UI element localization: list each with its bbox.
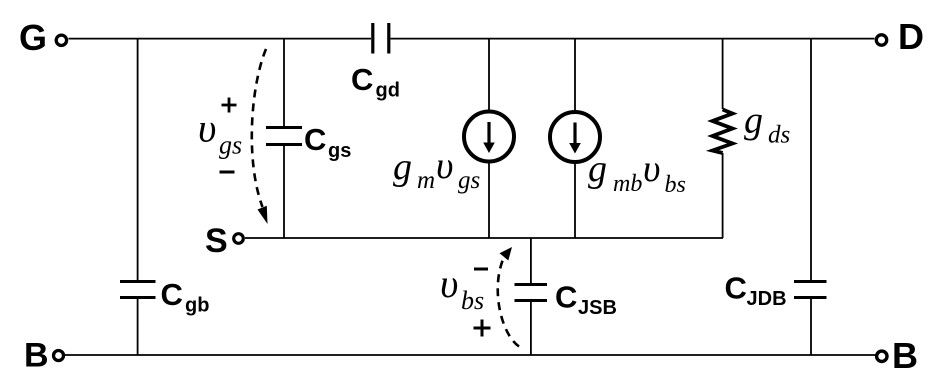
capacitor C_gd xyxy=(351,23,400,102)
capacitor C_gb xyxy=(120,277,209,317)
svg-text:gs: gs xyxy=(219,131,242,160)
label gmb vbs xyxy=(588,148,686,198)
svg-text:m: m xyxy=(417,167,435,194)
svg-text:C: C xyxy=(555,280,577,315)
svg-text:B: B xyxy=(892,335,918,376)
svg-text:C: C xyxy=(161,277,183,312)
svg-text:g: g xyxy=(393,146,412,188)
svg-text:υ: υ xyxy=(198,106,216,151)
svg-text:JSB: JSB xyxy=(578,297,617,319)
capacitor C_gs xyxy=(266,122,351,162)
svg-text:C: C xyxy=(351,62,373,97)
svg-text:υ: υ xyxy=(436,145,453,187)
terminal B right circle xyxy=(877,351,887,361)
svg-text:bs: bs xyxy=(461,286,484,315)
wire gmb source lower xyxy=(574,162,576,239)
vbs minus sign xyxy=(474,268,488,271)
vgs plus sign xyxy=(222,98,237,113)
terminal G circle xyxy=(56,35,66,45)
current source gmb*vbs xyxy=(550,112,600,162)
svg-text:gd: gd xyxy=(376,80,400,102)
wire Cgb branch lower xyxy=(137,298,139,356)
svg-text:G: G xyxy=(19,17,47,58)
wire gds branch upper xyxy=(722,39,724,109)
resistor g_ds xyxy=(713,110,733,154)
svg-text:D: D xyxy=(898,16,924,57)
svg-text:mb: mb xyxy=(613,171,642,197)
terminal B left label xyxy=(24,337,49,375)
vgs dashed arrow xyxy=(252,49,268,224)
wire CJSB branch lower xyxy=(530,301,532,356)
svg-text:B: B xyxy=(24,337,49,375)
wire S rail xyxy=(245,237,723,239)
terminal D circle xyxy=(876,35,886,45)
svg-text:C: C xyxy=(725,271,747,306)
capacitor C_JDB xyxy=(725,271,827,311)
svg-text:JDB: JDB xyxy=(747,288,787,310)
wire Cgb branch upper xyxy=(137,39,139,282)
svg-text:υ: υ xyxy=(643,148,660,190)
svg-text:S: S xyxy=(205,222,228,260)
label g_ds xyxy=(744,100,790,149)
wire top rail right segment (Cgd to D) xyxy=(391,38,875,40)
wire gm source lower xyxy=(488,161,490,238)
svg-text:gb: gb xyxy=(185,295,209,317)
wire bottom rail xyxy=(65,354,876,356)
svg-text:gs: gs xyxy=(328,140,351,162)
label gm vgs xyxy=(393,145,480,194)
wire gds branch lower xyxy=(722,153,724,238)
svg-text:g: g xyxy=(744,100,763,142)
terminal S circle xyxy=(234,234,244,244)
wire top rail left segment (G to Cgd) xyxy=(69,38,372,40)
svg-text:gs: gs xyxy=(458,167,480,194)
vbs plus sign xyxy=(474,320,491,337)
terminal D label xyxy=(898,16,924,57)
svg-text:C: C xyxy=(304,122,326,157)
terminal G label xyxy=(19,17,47,58)
wire CJDB branch lower xyxy=(810,298,812,356)
capacitor C_JSB xyxy=(515,280,617,320)
label vbs xyxy=(440,261,484,315)
wire Cgs branch upper xyxy=(283,39,285,128)
vgs minus sign xyxy=(220,171,235,174)
svg-text:g: g xyxy=(588,148,607,190)
wire Cgs branch lower xyxy=(283,145,285,239)
terminal B left circle xyxy=(54,351,64,361)
label vgs xyxy=(198,106,242,160)
wire CJSB branch upper xyxy=(530,238,532,285)
terminal B right label xyxy=(892,335,918,376)
wire gm source upper xyxy=(488,39,490,112)
svg-text:ds: ds xyxy=(768,122,790,149)
svg-text:υ: υ xyxy=(440,261,458,306)
svg-text:bs: bs xyxy=(665,172,686,198)
wire CJDB branch upper xyxy=(810,39,812,282)
vbs dashed arrow xyxy=(498,247,519,347)
terminal S label xyxy=(205,222,228,260)
wire gmb source upper xyxy=(574,39,576,113)
current source gm*vgs xyxy=(464,112,514,162)
